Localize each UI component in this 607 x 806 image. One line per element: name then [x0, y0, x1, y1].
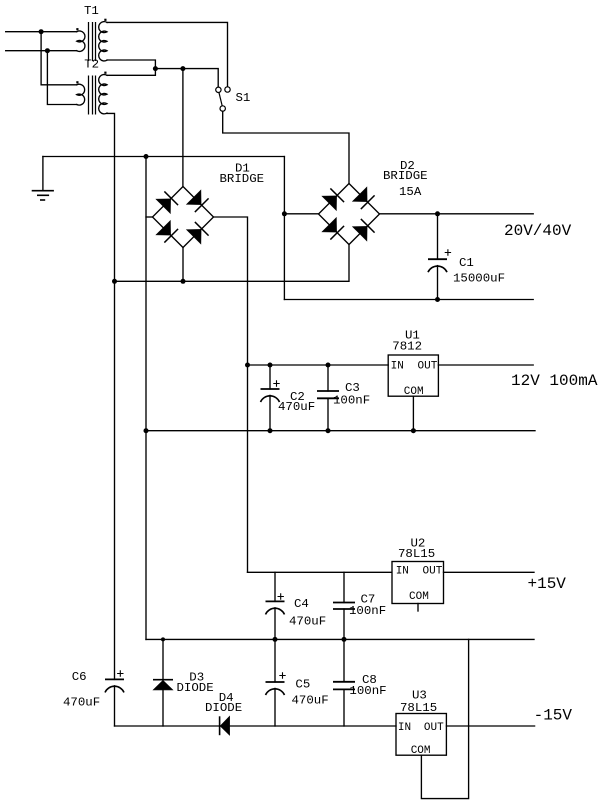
svg-text:COM: COM — [411, 745, 431, 757]
junction T1-T2 series node — [153, 66, 158, 71]
svg-text:DIODE: DIODE — [177, 681, 214, 695]
svg-text:COM: COM — [409, 591, 429, 603]
wire U2 COM stub — [417, 604, 419, 612]
svg-text:78L15: 78L15 — [398, 547, 435, 561]
wire D1 right vertex to 12V feed — [214, 217, 248, 572]
svg-text:470uF: 470uF — [292, 693, 329, 707]
svg-text:15000uF: 15000uF — [453, 272, 505, 286]
wire U1 OUT 12V output — [438, 364, 533, 366]
wire -15V raw rail — [115, 725, 397, 727]
T1 secondary polarity dot — [104, 19, 106, 21]
bridge rectifier D2 diode BR — [353, 219, 375, 241]
wire AC2 drop to T2 primary — [47, 51, 76, 105]
junction node to D1 top — [180, 66, 185, 71]
wire AC1 drop to T2 primary — [41, 32, 77, 85]
svg-text:78L15: 78L15 — [400, 701, 437, 715]
bridge rectifier D1 diode BL — [156, 221, 178, 243]
junction AC2 to T2 primary — [45, 48, 50, 53]
wire AC line 1 — [6, 31, 77, 33]
svg-text:100nF: 100nF — [349, 604, 386, 618]
regulator U1 — [388, 355, 438, 396]
junction D3 at ground rail — [161, 637, 165, 641]
bridge rectifier D2 outline — [319, 184, 380, 245]
transformer T1 secondary winding — [99, 22, 107, 61]
wire D1 left vertex to ground vertical — [146, 216, 153, 218]
wire U1 COM to ground rail — [412, 396, 414, 431]
wire T1 secondary bottom to junction — [107, 60, 155, 69]
svg-text:7812: 7812 — [392, 340, 422, 354]
T2 primary polarity dot — [76, 81, 78, 83]
svg-text:IN: IN — [396, 566, 409, 578]
svg-text:OUT: OUT — [423, 566, 443, 578]
bridge rectifier D1 outline — [153, 187, 214, 248]
ground symbol — [32, 157, 54, 201]
junction C3 bottom — [326, 428, 331, 433]
svg-text:T2: T2 — [84, 58, 99, 72]
bridge rectifier D1 diode TR — [187, 190, 209, 212]
junction D2 left vertex branch — [282, 211, 287, 216]
svg-text:20V/40V: 20V/40V — [504, 222, 572, 240]
svg-text:470uF: 470uF — [289, 615, 326, 629]
bridge rectifier D1 diode BR — [187, 222, 209, 244]
wire D2 right vertex 20V output — [380, 213, 534, 215]
wire to D2 left vertex — [284, 213, 318, 215]
bridge rectifier D2 diode TR — [353, 187, 375, 209]
capacitor C2 — [261, 365, 280, 431]
wire 12V input rail — [248, 364, 389, 366]
wire U3 COM return loop — [421, 639, 468, 798]
junction AC rail at left vertical — [112, 279, 117, 284]
junction C4-C5 at ground rail — [273, 637, 278, 642]
transformer T2 secondary winding — [99, 75, 107, 114]
junction C1 bottom — [435, 297, 440, 302]
diode D4 — [220, 716, 230, 735]
wire node down to D1 top vertex — [182, 69, 184, 187]
svg-text:C1: C1 — [459, 256, 474, 270]
svg-text:100nF: 100nF — [349, 684, 386, 698]
capacitor C5 — [266, 639, 286, 726]
junction C3 top — [326, 363, 331, 368]
bridge rectifier D1 diode TL — [156, 191, 178, 213]
junction 12V feed at input rail — [245, 363, 250, 368]
wire AC line 2 — [6, 50, 77, 52]
transformer T2 core — [89, 76, 96, 115]
bridge rectifier D2 diode TL — [322, 188, 344, 210]
wire U3 OUT -15V output — [446, 725, 534, 727]
svg-text:OUT: OUT — [424, 722, 444, 734]
svg-text:S1: S1 — [236, 91, 251, 105]
svg-text:T1: T1 — [84, 4, 99, 18]
junction C1 top — [435, 211, 440, 216]
svg-text:12V 100mA: 12V 100mA — [511, 372, 598, 390]
capacitor C4 — [266, 572, 285, 639]
svg-text:470uF: 470uF — [278, 400, 315, 414]
svg-text:C4: C4 — [294, 597, 309, 611]
wire ground rail — [43, 156, 285, 158]
junction U1 COM at ground rail — [411, 428, 416, 433]
junction ground rail to mid vertical — [144, 154, 149, 159]
svg-text:15A: 15A — [399, 185, 422, 199]
wire U2 OUT +15V output — [444, 571, 535, 573]
junction AC1 to T2 primary — [39, 29, 44, 34]
wire T2 secondary bottom down left rail — [107, 113, 115, 679]
svg-text:+15V: +15V — [528, 575, 567, 593]
capacitor C1 — [428, 214, 451, 300]
wire S1 common to D2 top vertex — [223, 111, 349, 183]
capacitor C6 — [105, 670, 124, 726]
bridge rectifier D2 diode BL — [322, 218, 344, 240]
wire T2 secondary top to junction — [107, 69, 155, 76]
capacitor C7 — [333, 572, 355, 639]
wire T1 secondary top to S1 right throw — [107, 22, 228, 86]
diode D3 — [153, 639, 173, 726]
svg-text:BRIDGE: BRIDGE — [383, 169, 428, 183]
transformer T2 primary winding — [77, 84, 85, 105]
junction C2 top — [268, 363, 273, 368]
svg-text:C6: C6 — [72, 670, 87, 684]
regulator U2 — [392, 562, 444, 604]
junction D1 bottom at AC rail — [181, 279, 186, 284]
transformer T1 core — [89, 22, 96, 61]
wire ground rail corner down to D2 left — [283, 157, 285, 300]
wire ground vertical x146 — [145, 157, 147, 640]
wire AC rail T2bottom to D2 bottom — [115, 245, 350, 282]
wire D1 bottom vertex to AC rail — [182, 248, 184, 282]
svg-text:100nF: 100nF — [333, 394, 370, 408]
wire lower ground rail — [146, 638, 534, 640]
T1 primary polarity dot — [76, 28, 78, 30]
T2 secondary polarity dot — [104, 72, 106, 74]
svg-text:OUT: OUT — [418, 361, 438, 373]
junction C7-C8 at ground rail — [342, 637, 347, 642]
svg-text:470uF: 470uF — [63, 695, 100, 709]
svg-text:IN: IN — [398, 722, 411, 734]
wire 15V input rail — [248, 571, 392, 573]
transformer T1 primary winding — [77, 31, 85, 51]
junction C2 bottom — [268, 428, 273, 433]
switch S1 — [216, 87, 231, 111]
svg-text:IN: IN — [391, 361, 404, 373]
regulator U3 — [396, 714, 446, 756]
wire 12V ground rail — [146, 430, 535, 432]
svg-text:DIODE: DIODE — [205, 701, 242, 715]
svg-text:BRIDGE: BRIDGE — [220, 172, 265, 186]
capacitor C3 — [317, 365, 339, 431]
svg-text:-15V: -15V — [534, 707, 573, 725]
wire 20V return rail — [284, 299, 533, 301]
junction ground vertical at 12V bottom rail — [144, 428, 149, 433]
capacitor C8 — [333, 639, 355, 726]
svg-text:C5: C5 — [295, 677, 310, 691]
wire series node to S1 left throw — [155, 69, 218, 87]
